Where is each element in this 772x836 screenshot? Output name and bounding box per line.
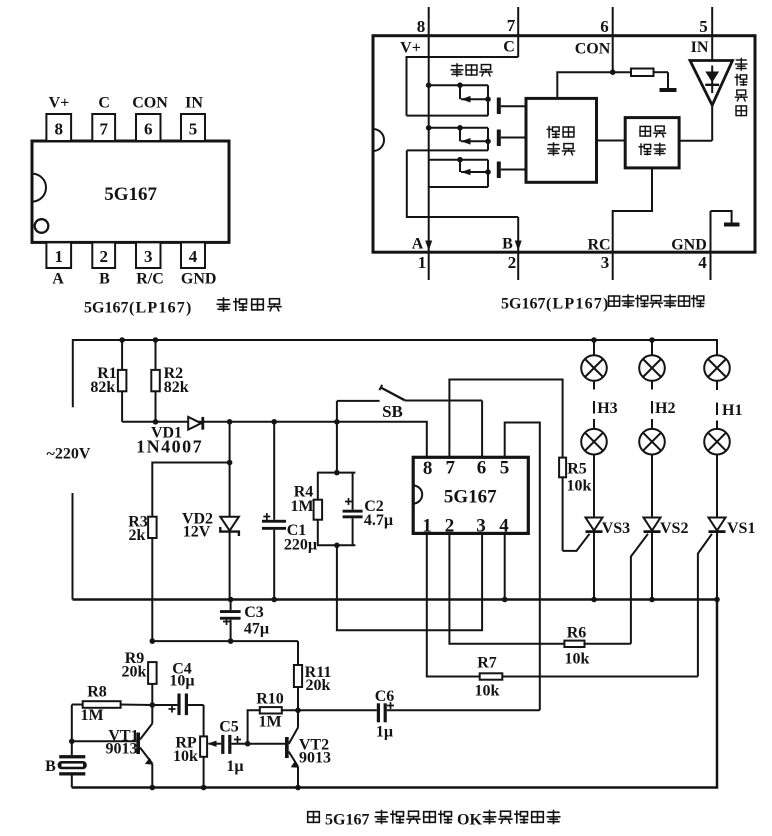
thyristor VS1 (709, 518, 756, 600)
capacitor C1 220u (262, 422, 317, 600)
wire: VCO bottom to pin 3 (RC) (613, 168, 652, 280)
ring counter block (CJK 2x2) (526, 98, 597, 182)
svg-text:VS3: VS3 (602, 520, 630, 537)
svg-text:7: 7 (507, 16, 516, 35)
capacitor C2 4.7u (343, 473, 394, 546)
resistor on CON line (613, 69, 668, 77)
lamp string H1 (704, 355, 742, 517)
svg-text:8: 8 (423, 458, 433, 479)
caption: 5G167 (LP167) integrated circuit (84, 298, 281, 316)
diode VD1 1N4007 (136, 417, 203, 456)
svg-text:2k: 2k (129, 527, 146, 544)
svg-text:3: 3 (601, 253, 610, 272)
rectifier-amplifier triangle (690, 61, 733, 106)
svg-text:1: 1 (55, 247, 64, 266)
junction dot H3 string/top rail (591, 337, 597, 343)
svg-text:6: 6 (477, 458, 487, 479)
wire: R8 left down to B node (71, 705, 73, 742)
resistor R11 20k (294, 641, 331, 710)
svg-text:R10: R10 (256, 690, 284, 707)
svg-text:(LP167): (LP167) (129, 300, 193, 317)
svg-text:12V: 12V (183, 524, 211, 541)
VCO block (CJK 2x2) (625, 118, 679, 168)
svg-text:A: A (52, 271, 64, 288)
svg-text:H1: H1 (722, 402, 742, 419)
svg-text:R5: R5 (567, 461, 587, 478)
junction dot R1/top rail (119, 337, 125, 343)
svg-text:1M: 1M (290, 498, 313, 515)
svg-text:B: B (45, 758, 56, 775)
svg-text:GND: GND (181, 271, 217, 288)
pin 8 box (46, 114, 71, 141)
svg-text:1µ: 1µ (226, 758, 243, 775)
pin 8 / pin 1 main vertical (V+ to A) (428, 7, 430, 280)
wire: VS2 gate to R6 (631, 534, 648, 644)
svg-text:5G167: 5G167 (444, 487, 497, 508)
junction dot B/VT1 base node (69, 739, 75, 745)
wire: SB riser and R4/C2 feed (336, 401, 338, 473)
resistor R3 2k (128, 513, 156, 641)
junction dot C1/ground rail (271, 597, 277, 603)
caption: karaoke light controller made with 5G167 (308, 811, 560, 829)
svg-text:4.7µ: 4.7µ (364, 512, 393, 529)
wire: ground rail (73, 598, 718, 601)
svg-text:C3: C3 (244, 604, 264, 621)
svg-text:82k: 82k (164, 379, 189, 396)
junction dot pin4/ground rail (502, 597, 508, 603)
svg-text:5: 5 (500, 458, 510, 479)
resistor R6 10k (564, 625, 631, 668)
svg-text:(LP167): (LP167) (546, 296, 610, 313)
IC outline box (373, 36, 755, 253)
wire: block bottom to IC pin 3 (337, 533, 482, 630)
resistor R7 10k (475, 655, 698, 700)
svg-text:1N4007: 1N4007 (136, 436, 203, 456)
svg-text:5: 5 (699, 17, 708, 36)
wire: R4/C2 block top bar (317, 472, 355, 474)
svg-text:C5: C5 (219, 719, 239, 736)
wire: low-voltage bus (152, 640, 298, 642)
junction dot C5/VT2 base node (245, 741, 251, 747)
wire: triangle apex down (711, 105, 713, 141)
label: rectify/amplify (4 CJK vertical) (735, 58, 747, 115)
svg-text:H3: H3 (597, 400, 617, 417)
potentiometer RP 10k (173, 705, 221, 788)
caption: 5G167 (LP167) internal function block diagram (501, 295, 704, 312)
svg-text:H2: H2 (655, 400, 675, 417)
svg-text:10k: 10k (475, 683, 500, 700)
junction dot CON node (610, 69, 616, 75)
svg-text:5G167: 5G167 (104, 184, 157, 205)
thyristor VS2 (644, 518, 689, 600)
wire: C feedback to driver 1 bottom (407, 57, 519, 116)
wire: ring counter to VCO (597, 140, 626, 142)
pin 6 top lead (612, 7, 614, 72)
svg-text:RC: RC (587, 237, 610, 254)
wire: mid rail to IC pin 8 (122, 422, 427, 458)
output driver 3 (429, 157, 526, 187)
wire: pin 4 to ground rail (504, 533, 506, 599)
pin 7 box (92, 114, 115, 141)
svg-text:R/C: R/C (136, 271, 164, 288)
svg-text:1M: 1M (258, 714, 281, 731)
wire: lower left lead (72, 493, 74, 600)
svg-text:A: A (412, 236, 424, 253)
svg-text:2: 2 (99, 247, 108, 266)
svg-text:CON: CON (132, 95, 168, 112)
lamp string H3 (581, 340, 617, 518)
svg-text:B: B (99, 271, 110, 288)
svg-text:C6: C6 (375, 688, 395, 705)
microphone B (45, 741, 87, 787)
lamp string H2 (639, 340, 675, 518)
junction dot R4/C2 block top (334, 470, 340, 476)
pin 4 box (181, 242, 205, 268)
resistor R8 1M (72, 684, 153, 724)
thyristor VS3 (586, 518, 631, 600)
svg-text:82k: 82k (90, 379, 115, 396)
svg-text:220µ: 220µ (284, 536, 317, 553)
wire: R4/C2 block bottom bar (317, 544, 355, 546)
resistor R5 10k (559, 458, 591, 551)
pin 6 box (136, 114, 161, 141)
wire: pin 2 down to R6 (449, 533, 564, 643)
pin 4 lead and internal ground (711, 211, 740, 280)
svg-text:R6: R6 (567, 625, 587, 642)
junction dot R3/VD2 node (227, 460, 233, 466)
junction dot VT1 collector node (150, 702, 156, 708)
svg-text:1: 1 (422, 516, 432, 537)
junction dot R4/C2 block bottom (334, 543, 340, 549)
svg-text:10k: 10k (173, 748, 198, 765)
svg-text:V+: V+ (49, 95, 70, 112)
svg-text:4: 4 (499, 516, 509, 537)
svg-text:R8: R8 (87, 684, 107, 701)
svg-text:VS2: VS2 (660, 520, 688, 537)
wire: R5 to VS3 gate (563, 534, 590, 551)
svg-text:5: 5 (189, 120, 198, 139)
svg-text:5G167: 5G167 (84, 300, 128, 317)
junction dot VS1/ground rail (714, 597, 720, 603)
pin 5 box (181, 114, 205, 141)
transistor VT2 9013 (248, 710, 331, 787)
svg-text:B: B (502, 236, 513, 253)
junction dot R2 bottom/mid rail (153, 419, 159, 425)
resistor R1 82k (90, 340, 126, 422)
svg-text:47µ: 47µ (244, 620, 269, 637)
junction dot VD2-C3/ground rail (228, 597, 234, 603)
transistor VT1 9013 (72, 705, 153, 788)
svg-text:9013: 9013 (106, 741, 138, 758)
svg-text:1µ: 1µ (376, 724, 393, 741)
wire: driver 2 bottom to pin 2 (B) (407, 150, 518, 217)
wire: VD2 branch down and left to R3 (152, 422, 229, 517)
IC 5G167 (413, 457, 528, 536)
junction dot H2 string/top rail (649, 337, 655, 343)
junction dot VD2 branch/mid rail (227, 419, 233, 425)
svg-text:1M: 1M (80, 707, 103, 724)
svg-text:VS1: VS1 (727, 520, 755, 537)
svg-text:7: 7 (446, 458, 456, 479)
svg-text:1: 1 (418, 253, 427, 272)
junction dot C3/bus (228, 638, 234, 644)
svg-text:IN: IN (185, 95, 203, 112)
svg-text:10µ: 10µ (169, 673, 194, 690)
svg-text:4: 4 (698, 253, 707, 272)
pin 3 box (136, 242, 161, 268)
junction dot VS3/ground rail (591, 597, 597, 603)
svg-text:IN: IN (691, 39, 709, 56)
pin 1 box (46, 242, 71, 268)
wire: VS1 gate to R7 (698, 534, 712, 677)
wire: right side down and long bottom return (72, 600, 717, 788)
resistor R2 82k (151, 340, 188, 422)
pin 7 top lead (517, 7, 519, 57)
svg-text:20k: 20k (306, 677, 331, 694)
pin 2 box (92, 242, 115, 268)
junction dot R11/R10/C6 node (295, 708, 301, 714)
resistor R10 1M (248, 690, 298, 743)
output driver 1 (407, 82, 527, 115)
svg-text:SB: SB (382, 402, 403, 421)
junction dot R3-R9/bus (150, 638, 156, 644)
svg-text:9013: 9013 (299, 750, 331, 767)
capacitor C5 1u (219, 719, 247, 775)
junction dot RP/bottom wire (201, 785, 207, 791)
junction dot VT1 emitter/bottom wire (150, 785, 156, 791)
resistor R4 1M (290, 473, 322, 546)
svg-text:C: C (503, 39, 515, 56)
svg-text:6: 6 (144, 120, 153, 139)
capacitor C4 10u (152, 660, 203, 715)
wire: CON to ring counter top (557, 72, 612, 98)
wire: VCO to amplifier (679, 140, 712, 142)
ground symbol on CON line (660, 72, 677, 92)
svg-text:5G167: 5G167 (501, 296, 545, 313)
svg-text:20k: 20k (122, 663, 147, 680)
svg-text:6: 6 (600, 17, 609, 36)
wire: pin 5 up over and down to C6 (505, 423, 540, 711)
output driver 2 (407, 125, 526, 150)
svg-text:CON: CON (575, 41, 611, 58)
zener diode VD2 12V (182, 463, 239, 600)
label: output stage (3 CJK chars) (451, 64, 492, 76)
svg-text:2: 2 (508, 253, 517, 272)
wire: pin 7 up and over to R5 (449, 380, 562, 458)
svg-text:~220V: ~220V (47, 446, 91, 463)
svg-text:3: 3 (476, 516, 486, 537)
junction dot SB-R4C2/mid rail (334, 419, 340, 425)
svg-text:GND: GND (671, 237, 707, 254)
junction dot VT2 emitter/bottom wire (295, 785, 301, 791)
switch SB (337, 385, 482, 421)
capacitor C3 47u (220, 600, 269, 642)
svg-text:10k: 10k (567, 477, 592, 494)
junction dot VS2/ground rail (649, 597, 655, 603)
wire: top supply rail (73, 340, 717, 407)
junction dot R2/top rail (153, 337, 159, 343)
wire: pin 1 down to R7 (427, 533, 480, 676)
resistor R9 20k (122, 650, 157, 705)
svg-text:3: 3 (144, 247, 153, 266)
svg-text:R7: R7 (477, 655, 497, 672)
pin 5 top lead (711, 7, 713, 60)
svg-text:C: C (98, 95, 110, 112)
capacitor C6 1u (298, 688, 540, 741)
svg-text:5G167: 5G167 (325, 812, 369, 829)
svg-text:8: 8 (55, 120, 64, 139)
svg-text:7: 7 (99, 120, 108, 139)
svg-text:OK: OK (457, 812, 482, 829)
pin 2 bottom lead (517, 217, 519, 280)
wire: pin 6 riser (481, 401, 483, 458)
svg-text:V+: V+ (400, 40, 421, 57)
arrowhead at B (515, 241, 522, 251)
arrowhead at A (425, 241, 432, 251)
svg-text:2: 2 (445, 516, 455, 537)
svg-text:4: 4 (189, 247, 198, 266)
junction dot C1/mid rail (271, 419, 277, 425)
IC U1 package body 5G167 (32, 141, 229, 242)
svg-text:8: 8 (417, 17, 426, 36)
svg-text:10k: 10k (565, 650, 590, 667)
